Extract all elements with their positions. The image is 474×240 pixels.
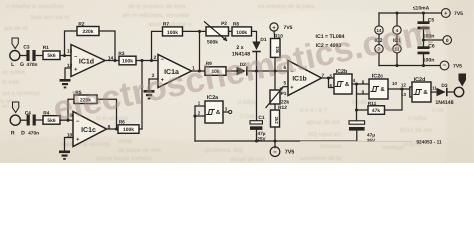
svg-text:22k: 22k [281, 99, 289, 105]
node IC1a output [198, 69, 201, 72]
svg-text:d n 4 / 4 7: d n 4 / 4 7 [300, 107, 327, 114]
svg-text:R4: R4 [43, 111, 49, 117]
component body [446, 88, 448, 96]
wire pin3 to ground [149, 79, 158, 90]
svg-text:0.045s: 0.045s [238, 99, 256, 106]
node 0V [422, 38, 425, 41]
svg-text:R7: R7 [163, 21, 169, 27]
svg-text:R: R [11, 130, 15, 136]
wire to D1 [252, 31, 257, 41]
wire node A [247, 70, 288, 72]
resistor R1 [43, 51, 60, 60]
svg-text:25V: 25V [257, 136, 266, 141]
svg-text:&: & [423, 89, 428, 96]
wire [99, 31, 115, 61]
op-amp IC1d [71, 45, 105, 77]
wire R11 to out [385, 89, 403, 110]
wire [60, 119, 73, 121]
wire out pin10 [388, 88, 410, 90]
svg-text:C1: C1 [258, 115, 264, 121]
node IC1b output tie [327, 76, 330, 79]
wire [226, 70, 237, 72]
svg-text:en soled: en soled [2, 69, 25, 76]
wire [36, 55, 43, 57]
svg-text:0: 0 [446, 38, 449, 44]
svg-text:P1: P1 [281, 91, 287, 97]
resistor R12 vertical [271, 110, 280, 127]
wire [60, 55, 71, 57]
svg-text:IC1c: IC1c [81, 127, 96, 134]
wire feedback to R5 [68, 99, 74, 120]
preset P2 [206, 27, 229, 36]
wire feedback to R2 [65, 31, 78, 56]
node RC timing [355, 108, 358, 111]
svg-text:100k: 100k [123, 127, 134, 133]
bleed-through ghost text from reverse page [0, 3, 444, 163]
component body [252, 51, 260, 53]
preset P2 wiper arrowhead [223, 37, 227, 42]
faint rule to part number [300, 140, 413, 142]
svg-text:0.04s: 0.04s [240, 113, 255, 120]
IC2 pin 14 supply circle [375, 26, 383, 34]
top rail [379, 12, 441, 14]
IC1 pin 4 supply circle [393, 26, 401, 34]
svg-text:weutsge: weutsge [381, 145, 405, 151]
node IC2c output / R11 [400, 87, 403, 90]
svg-text:C3: C3 [23, 44, 29, 50]
resistor R3 [119, 56, 136, 65]
svg-text:13: 13 [401, 92, 406, 97]
svg-text:2: 2 [154, 55, 157, 61]
wire [356, 94, 358, 121]
svg-text:R10: R10 [274, 34, 283, 40]
wire [266, 87, 283, 108]
svg-text:−: − [443, 63, 447, 69]
wire [274, 104, 276, 110]
svg-text:serucne: serucne [320, 144, 342, 150]
wire [36, 119, 43, 121]
wire up to R7 [152, 31, 163, 60]
capacitor C7 electrolytic [349, 121, 365, 124]
svg-text:220k: 220k [83, 29, 94, 35]
svg-text:7V5: 7V5 [453, 64, 462, 70]
svg-text:7V5: 7V5 [454, 11, 463, 17]
svg-text:924053 - 11: 924053 - 11 [416, 140, 442, 146]
bottom rail [379, 65, 440, 67]
input jack terminal L [10, 51, 20, 61]
svg-text:0.045s: 0.045s [408, 115, 426, 122]
component body [63, 158, 66, 160]
svg-text:R12: R12 [278, 105, 287, 111]
wire pin12 to ground [65, 68, 71, 80]
resistor R8 [232, 27, 252, 36]
input jack arrow L [12, 38, 18, 49]
component body [62, 83, 68, 85]
svg-text:SQ rupul sin: SQ rupul sin [308, 131, 341, 138]
wire [423, 29, 425, 40]
schmitt symbol IC2a [206, 110, 215, 115]
svg-text:2k2: 2k2 [274, 117, 279, 125]
component body [33, 115, 36, 126]
input jack arrow R [13, 102, 19, 113]
svg-text:470n: 470n [27, 62, 38, 68]
svg-text:7V5: 7V5 [285, 150, 295, 156]
wire [256, 130, 258, 141]
svg-text:IC1d: IC1d [79, 57, 94, 65]
node R5 feedback / output [115, 127, 118, 130]
svg-text:1N4148: 1N4148 [435, 100, 453, 106]
svg-text:sul a termonal: sul a termonal [2, 90, 40, 97]
svg-text:IC2c: IC2c [372, 74, 383, 80]
schmitt symbol IC2d [413, 90, 422, 95]
svg-text:470n: 470n [28, 130, 39, 136]
node C1 on -7V5 rail [255, 139, 258, 142]
wire [136, 60, 158, 62]
wire IC1a output to P2 rail [199, 31, 201, 71]
svg-text:−: − [273, 149, 277, 156]
resistor R5 [74, 95, 97, 104]
capacitor C5 [423, 13, 425, 21]
svg-text:47k: 47k [372, 108, 380, 114]
schmitt symbol IC2c [370, 87, 379, 92]
svg-text:10: 10 [67, 133, 73, 139]
svg-text:arsucl de mu: arsucl de mu [230, 156, 264, 163]
svg-text:100n: 100n [423, 58, 435, 64]
+7V5 terminal [270, 23, 278, 31]
wire [356, 131, 358, 141]
wire down to RC [357, 84, 370, 94]
preset P1 vertical [270, 90, 280, 104]
node C6 on -rail [422, 64, 425, 67]
component body [32, 50, 35, 61]
ground [144, 90, 155, 99]
wire to P1 [274, 71, 276, 90]
svg-text:7V5: 7V5 [284, 25, 293, 31]
watermark overlay (subtle, over ink) [50, 12, 437, 129]
svg-text:P2: P2 [221, 21, 227, 27]
node IC1 supply on -rail [395, 64, 398, 67]
0V terminal circle [443, 36, 452, 45]
node IC2b output [355, 82, 358, 85]
svg-text:10: 10 [392, 81, 397, 86]
component body [250, 121, 262, 124]
svg-text:meist: meist [118, 138, 133, 145]
svg-text:500k: 500k [207, 39, 218, 45]
svg-text:100k: 100k [122, 59, 133, 65]
output jack arrow [459, 74, 467, 87]
svg-text:R1: R1 [43, 45, 49, 51]
component body [418, 52, 430, 55]
wire from R6 up [141, 61, 143, 130]
svg-text:47µ: 47µ [258, 131, 266, 136]
svg-text:100k: 100k [236, 30, 247, 36]
svg-text:problema. Mai: problema. Mai [205, 147, 243, 154]
svg-text:IC2d: IC2d [414, 77, 426, 83]
op-amp IC1a [158, 55, 192, 88]
wire [378, 53, 380, 66]
+7V5 terminal [441, 9, 450, 18]
input jack terminal R [10, 115, 20, 125]
svg-text:securente de la: securente de la [300, 155, 342, 162]
svg-text:spisse al recovos: spisse al recovos [64, 141, 110, 148]
schmitt symbol IC2b [335, 82, 344, 87]
wire [183, 30, 207, 32]
preset P1 wiper arrowhead [279, 87, 283, 91]
IC2 supply drop [378, 13, 380, 26]
wire [229, 30, 233, 32]
svg-text:G: G [20, 62, 24, 68]
node summing [140, 59, 143, 62]
wire out [321, 77, 334, 79]
svg-text:≤10mA: ≤10mA [413, 6, 430, 12]
ground [59, 151, 70, 160]
-7V5 terminal bottom [274, 141, 276, 148]
component body [349, 127, 365, 131]
wire [448, 91, 455, 93]
svg-text:5k6: 5k6 [47, 53, 55, 59]
wire IC1d out [105, 60, 119, 62]
wire RC node to R11 [357, 109, 369, 111]
capacitor C6 [423, 40, 425, 46]
node R2 feedback / output [113, 59, 116, 62]
svg-text:fo treb: fo treb [2, 79, 20, 86]
wire [410, 86, 412, 88]
svg-text:0.045: 0.045 [352, 99, 368, 106]
output terminal [454, 87, 463, 96]
node P2 rail tap [198, 30, 201, 33]
component body [250, 126, 262, 130]
svg-text:0.04: 0.04 [432, 107, 444, 114]
svg-text:D3: D3 [441, 83, 447, 89]
watermark electroschematics.com (under ink) [50, 12, 437, 129]
node IC2a input tie [193, 114, 196, 117]
wire IC1a out [191, 70, 205, 72]
wire [274, 127, 276, 141]
svg-text:aprua 38 mA: aprua 38 mA [306, 119, 340, 126]
resistor R9 [205, 67, 226, 76]
svg-text:&: & [380, 86, 385, 93]
component body [148, 98, 151, 100]
wire [378, 34, 380, 44]
node (R1/R2 junction) [63, 54, 66, 57]
IC2a open output circle [229, 110, 232, 113]
svg-text:12: 12 [401, 82, 406, 87]
resistor R6 [118, 125, 139, 134]
node C5 on +rail [422, 11, 425, 14]
wire [139, 128, 142, 130]
wire [274, 57, 276, 71]
capacitor C4 [27, 115, 36, 126]
capacitor C3 [26, 50, 35, 61]
svg-text:12: 12 [67, 63, 73, 69]
component body [146, 94, 152, 96]
capacitor C1 electrolytic [256, 71, 258, 121]
pin3 open [223, 111, 229, 113]
mid wire to 0 [424, 39, 443, 41]
-7V5 terminal [440, 61, 449, 70]
IC1 pin 11 supply circle [393, 45, 401, 53]
wire [273, 31, 276, 38]
svg-text:47µ: 47µ [367, 133, 375, 138]
svg-text:100k: 100k [167, 30, 178, 36]
node feedback IC1a [150, 59, 153, 62]
svg-text:BOU 38 mA: BOU 38 mA [400, 127, 432, 134]
paper background [0, 0, 474, 163]
svg-text:R11: R11 [368, 101, 377, 107]
svg-text:R8: R8 [233, 21, 239, 27]
svg-text:&: & [216, 109, 221, 116]
resistor R11 [368, 106, 385, 115]
op-amp IC1c [73, 112, 107, 147]
gate symbols (schmitt + &) [206, 82, 422, 115]
resistor R10 vertical [271, 39, 281, 58]
diode D2 [237, 66, 248, 75]
svg-text:C4: C4 [25, 110, 31, 116]
svg-text:Suid sen sai st: Suid sen sai st [30, 14, 69, 21]
wire [195, 106, 205, 116]
resistor R4 [43, 116, 60, 125]
svg-text:D1: D1 [260, 37, 266, 43]
svg-text:R6: R6 [119, 119, 125, 125]
wire [194, 116, 196, 141]
wire out pin4 to pin8 [352, 83, 369, 85]
wire [256, 52, 258, 71]
wire [97, 99, 117, 129]
svg-text:stania lurcas tramoni: stania lurcas tramoni [96, 155, 151, 162]
component body [418, 27, 430, 30]
-7V5 terminal circle [270, 147, 280, 157]
svg-text:25V: 25V [367, 138, 376, 143]
wire [195, 105, 205, 107]
wire pin10 to ground [65, 138, 74, 151]
node R4/R5 [66, 119, 69, 122]
wire [205, 22, 227, 41]
wire [396, 53, 398, 66]
svg-text:13: 13 [67, 49, 73, 55]
wire [20, 119, 27, 121]
IC2 pin 7 supply circle [375, 45, 383, 53]
svg-text:8: 8 [108, 124, 111, 130]
svg-text:de place de nett: de place de nett [118, 147, 161, 154]
component body [62, 155, 68, 157]
component body [246, 66, 248, 75]
component body [334, 74, 352, 94]
svg-text:es untrece de la para: es untrece de la para [258, 3, 315, 10]
svg-text:11: 11 [432, 86, 437, 91]
svg-text:R2: R2 [78, 21, 84, 27]
svg-text:am re edicintes, recundar: am re edicintes, recundar [122, 12, 190, 19]
svg-text:aut de re: aut de re [4, 25, 28, 32]
svg-text:de in puestos de letra: de in puestos de letra [128, 3, 186, 10]
node R12 on -7V5 rail [273, 139, 276, 142]
node D1 [255, 69, 258, 72]
svg-text:n riesche si iconciliule: n riesche si iconciliule [6, 3, 65, 10]
component body [412, 82, 431, 102]
wire out pin11 [431, 91, 437, 93]
node IC1 supply on +rail [395, 11, 398, 14]
wire [329, 78, 335, 88]
wire IC1c out [106, 128, 118, 130]
wire [20, 55, 27, 57]
svg-text:&: & [345, 81, 350, 88]
IC1 supply drop [396, 13, 398, 26]
svg-text:D: D [21, 130, 25, 136]
wire [396, 34, 398, 44]
diode D1 [252, 42, 260, 53]
svg-text:R3: R3 [118, 51, 124, 57]
svg-text:14: 14 [108, 56, 114, 62]
ground [60, 79, 71, 88]
resistor R7 [163, 27, 183, 36]
diode D3 [437, 88, 448, 96]
resistor R2 [77, 27, 99, 36]
component body [64, 87, 67, 89]
wire wiper to pin5 [283, 86, 288, 88]
node R10 [273, 69, 276, 72]
wire [423, 54, 425, 65]
